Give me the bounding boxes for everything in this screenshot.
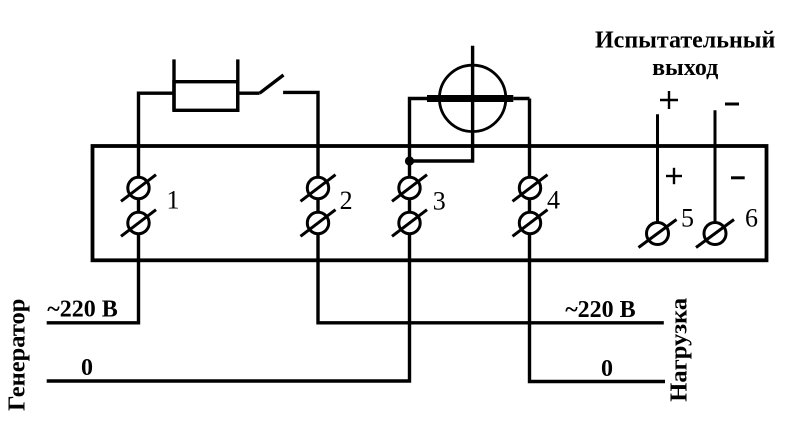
plus sign inside box xyxy=(666,168,682,184)
meter M1 vertical lead and jog to node A xyxy=(410,46,473,161)
terminal 6 xyxy=(696,204,758,248)
terminal 5 xyxy=(639,204,695,248)
minus sign above box xyxy=(725,103,739,106)
wire test output - to terminal 6 xyxy=(714,110,717,233)
svg-text:Генератор: Генератор xyxy=(4,299,31,411)
svg-text:Нагрузка: Нагрузка xyxy=(666,298,693,402)
wire fuse to switch xyxy=(238,91,260,94)
plus sign above box xyxy=(660,91,678,109)
svg-text:1: 1 xyxy=(167,186,180,215)
wire generator ~220V to terminal 1 up to fuse xyxy=(47,93,174,323)
terminal 4 xyxy=(513,175,561,237)
terminal box xyxy=(93,146,767,260)
switch S1 blade xyxy=(260,75,284,93)
wire terminal 3 down to generator 0 line xyxy=(47,161,410,381)
wire switch to terminal 2 down to load ~220V line xyxy=(283,92,664,322)
svg-text:~220 В: ~220 В xyxy=(47,297,118,323)
svg-text:~220 В: ~220 В xyxy=(565,297,636,323)
svg-text:5: 5 xyxy=(681,204,694,233)
terminal 1 xyxy=(121,175,180,237)
svg-text:3: 3 xyxy=(433,186,446,215)
wire bar right to terminal 4 xyxy=(513,97,529,100)
svg-text:4: 4 xyxy=(547,186,560,215)
svg-text:6: 6 xyxy=(745,204,758,233)
wire test output + to terminal 5 xyxy=(656,114,659,233)
svg-text:0: 0 xyxy=(81,355,93,381)
svg-text:2: 2 xyxy=(340,186,353,215)
svg-text:Испытательный: Испытательный xyxy=(595,28,776,54)
meter M1 current winding circle xyxy=(439,65,505,131)
fuse F1 xyxy=(174,59,238,110)
terminal 2 xyxy=(301,175,353,237)
node A junction dot xyxy=(405,156,414,165)
wire bar left to node A xyxy=(410,99,428,162)
minus sign inside box xyxy=(731,176,745,179)
svg-text:0: 0 xyxy=(601,356,613,382)
meter M1 thick bar (current coil) xyxy=(427,95,513,102)
wire terminal 4 down to load 0 line xyxy=(530,99,666,382)
svg-text:выход: выход xyxy=(652,55,718,81)
terminal 3 xyxy=(392,175,446,237)
